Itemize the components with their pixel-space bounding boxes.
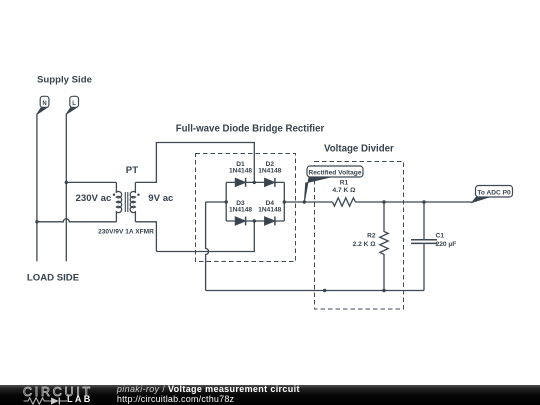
logo CIRCUIT text [23,385,93,399]
diode D1 [235,178,245,187]
label D4 1N4148 [258,200,281,213]
wire ground rail [206,290,424,292]
footer credit line [117,384,300,394]
wire L vertical [65,114,67,262]
flag To ADC P0 [472,186,513,203]
junction node rectified voltage tap [303,200,306,203]
wire secondary top [135,143,254,183]
junction node R2 top [382,200,385,203]
resistor R1 [333,198,356,206]
svg-text:LOAD SIDE: LOAD SIDE [27,272,80,283]
svg-text:220 µF: 220 µF [436,241,457,248]
svg-text:230V ac: 230V ac [76,193,112,204]
section title Supply Side [37,74,92,85]
junction node L-primary [65,181,68,184]
diode D3 [235,217,245,226]
label C1 220 uF [436,233,457,248]
wire bridge left terminal [206,201,227,203]
svg-text:4.7 K Ω: 4.7 K Ω [333,187,357,194]
section title Full-wave Diode Bridge Rectifier [176,123,325,134]
label 9V ac [148,193,174,204]
svg-text:1N4148: 1N4148 [258,206,281,213]
junction node C1 top [422,200,425,203]
label 230V/9V 1A XFMR [98,229,154,236]
footer bar CircuitLab [0,384,540,405]
label PT [126,165,138,176]
label D2 1N4148 [258,161,281,174]
wire bridge negative to ground rail with hop [206,202,209,291]
wire primary top [66,181,116,183]
wire secondary bottom [135,222,156,252]
transformer PT [113,182,140,221]
junction node bridge bottom [253,219,256,222]
wire R1 to ADC [355,201,471,203]
svg-text:C1: C1 [436,233,445,240]
capacitor C1 [411,202,437,291]
logo resistor-diode doodle [23,397,69,405]
footer url line [117,394,234,404]
label R1 4.7 K ohm [333,180,357,194]
label 230V ac [76,193,112,204]
wire N vertical [36,114,38,262]
label D3 1N4148 [229,200,252,213]
flag L terminal [66,96,78,114]
wire bridge positive output [284,201,332,203]
svg-text:9V ac: 9V ac [148,193,174,204]
svg-text:230V/9V 1A XFMR: 230V/9V 1A XFMR [98,229,154,236]
dashed box voltage divider [315,162,404,310]
wire primary bottom with hop over L [37,219,116,222]
junction node bridge left [225,200,228,203]
flag Rectified Voltage [304,166,363,203]
section title LOAD SIDE [27,272,80,283]
junction node R2 bottom [382,289,385,292]
junction node rail left [323,289,326,292]
svg-text:Full-wave Diode Bridge Rectifi: Full-wave Diode Bridge Rectifier [176,123,325,134]
label D1 1N4148 [229,161,252,174]
dashed box bridge rectifier [196,154,296,262]
svg-text:Supply Side: Supply Side [37,74,92,85]
svg-text:R1: R1 [340,180,349,187]
diode D2 [265,178,275,187]
svg-text:N: N [42,101,46,107]
svg-text:R2: R2 [367,233,376,240]
resistor R2 [380,202,388,291]
label R2 2.2 K ohm [353,233,377,248]
bridge frame [226,182,284,221]
svg-text:Voltage Divider: Voltage Divider [324,143,394,154]
wire bridge bottom to secondary [156,221,254,252]
svg-text:Rectified Voltage: Rectified Voltage [308,170,361,177]
svg-text:PT: PT [126,165,138,176]
junction node bridge top [253,181,256,184]
svg-text:L: L [72,101,76,107]
svg-text:1N4148: 1N4148 [229,167,252,174]
junction node N-primary [35,220,38,223]
junction node bridge right [283,200,286,203]
svg-text:1N4148: 1N4148 [258,167,281,174]
diode D4 [265,217,275,226]
section title Voltage Divider [324,143,394,154]
svg-text:To ADC P0: To ADC P0 [477,189,511,196]
svg-text:2.2 K Ω: 2.2 K Ω [353,241,377,248]
flag N terminal [37,96,49,114]
svg-text:1N4148: 1N4148 [229,206,252,213]
